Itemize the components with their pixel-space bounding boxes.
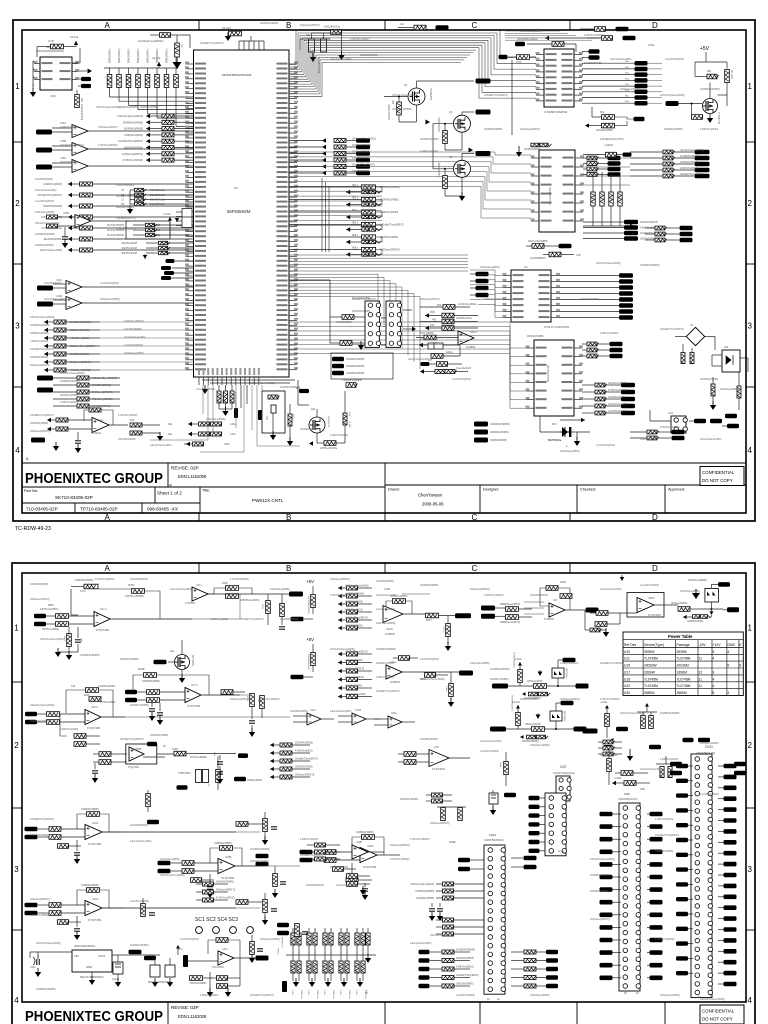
resistor R38 xyxy=(437,362,449,367)
resistor R16 xyxy=(343,413,347,425)
resistor RA5 xyxy=(355,933,359,945)
svg-text:163B04k(39685): 163B04k(39685) xyxy=(81,808,99,811)
resistor U15E in xyxy=(190,976,203,981)
resistor above CN8 d xyxy=(624,781,636,786)
svg-text:Designer:: Designer: xyxy=(483,488,499,492)
wire bundle to MAX232 xyxy=(289,321,420,323)
resistor right edge a xyxy=(737,386,741,398)
resistor RB3 xyxy=(323,961,327,973)
netbox clamp in xyxy=(490,727,506,732)
resistor C17 top left xyxy=(84,584,98,589)
op-amp U15B xyxy=(72,143,88,156)
wire SC left bus xyxy=(329,280,331,343)
svg-text:U17 a: U17 a xyxy=(100,608,107,611)
svg-text:1643B04K[3R685]: 1643B04K[3R685] xyxy=(640,264,660,267)
wire netbox col xyxy=(470,273,476,275)
wire bundle lower right of U1 xyxy=(289,254,468,256)
svg-text:ICT4LCCT244STROM: ICT4LCCT244STROM xyxy=(544,326,569,329)
capacitor C41 xyxy=(113,962,123,974)
svg-text:473KOhm(3R63Z): 473KOhm(3R63Z) xyxy=(390,858,410,861)
netbox rows below SC xyxy=(331,353,393,379)
svg-text:18M25W(3R685): 18M25W(3R685) xyxy=(420,584,438,587)
netbox U14A in xyxy=(37,286,53,291)
op-amp U16C xyxy=(458,331,474,345)
op-amp U15C xyxy=(72,160,88,173)
svg-text:18M25W(3R685): 18M25W(3R685) xyxy=(456,984,474,986)
ground U1 bottom left pin xyxy=(202,385,208,394)
netbox CN9R14 xyxy=(724,916,737,921)
resistor U17 a Rin2 xyxy=(56,622,69,627)
netbox column c xyxy=(476,286,489,291)
netbox clamp U11 xyxy=(718,582,730,587)
resistor CN10C2 xyxy=(524,967,536,971)
netbox CN8L8 xyxy=(600,913,613,918)
op-amp U14B xyxy=(66,297,82,310)
op-amp U12A xyxy=(92,418,109,433)
wire U8 left fan xyxy=(420,322,526,348)
svg-text:1: 1 xyxy=(748,624,753,633)
svg-text:4: 4 xyxy=(713,677,715,681)
resistor CN10B2 xyxy=(419,967,430,971)
netbox U15E out xyxy=(256,956,269,961)
wire R56 xyxy=(346,254,362,256)
svg-text:TL0745M: TL0745M xyxy=(644,657,658,661)
netbox clamp top xyxy=(561,701,574,706)
svg-text:473KOhm(3R63Z): 473KOhm(3R63Z) xyxy=(260,698,280,701)
resistor CN10M1 xyxy=(443,925,455,929)
svg-text:4.99KOhm[0603]: 4.99KOhm[0603] xyxy=(60,728,78,731)
connector CN3 xyxy=(671,416,687,433)
netbox CN9L3 xyxy=(676,808,688,812)
arrow RD rows xyxy=(188,422,192,426)
svg-text:473KOhm(3R63Z): 473KOhm(3R63Z) xyxy=(92,398,113,401)
svg-text:12k/ohmSame(3R6): 12k/ohmSame(3R6) xyxy=(408,358,430,361)
svg-text:HC?a: HC?a xyxy=(292,414,294,420)
svg-text:C10: C10 xyxy=(156,224,161,227)
svg-text:1643B04K[3R685]: 1643B04K[3R685] xyxy=(36,988,56,991)
netbox U5 out4 xyxy=(635,78,648,83)
resistor U18B below xyxy=(191,878,203,883)
svg-text:+5V: +5V xyxy=(700,46,710,52)
capacitor CA1 xyxy=(297,933,301,945)
svg-text:B: B xyxy=(286,513,291,522)
netbox right mid xyxy=(616,727,628,732)
svg-text:1M(Same[2R5KT]): 1M(Same[2R5KT]) xyxy=(92,391,113,394)
resistor RR5 xyxy=(322,164,326,168)
svg-text:U17 c: U17 c xyxy=(196,584,203,587)
svg-text:182R04K(3R685): 182R04K(3R685) xyxy=(664,128,683,131)
svg-text:KTBHC35M: KTBHC35M xyxy=(178,773,190,775)
wire X2 xyxy=(675,336,686,338)
resistor R5A under U5 xyxy=(602,115,615,120)
netbox CN8R13 xyxy=(650,976,663,981)
resistor pair below U11 out xyxy=(683,615,687,619)
wire U17A out xyxy=(110,618,192,620)
svg-text:U18B: U18B xyxy=(225,856,232,859)
svg-text:10K0ohm(Same[0603]): 10K0ohm(Same[0603]) xyxy=(30,704,55,707)
row R42 xyxy=(442,319,454,324)
resistor U8D in xyxy=(99,752,111,757)
svg-text:18M25W(3R685): 18M25W(3R685) xyxy=(484,128,502,131)
resistor RC4 xyxy=(77,397,89,401)
svg-text:10K0ohm(Same[0603]): 10K0ohm(Same[0603]) xyxy=(590,858,615,861)
netbox CN9L13 xyxy=(676,956,688,960)
svg-text:16A25W(3R485): 16A25W(3R485) xyxy=(118,438,136,441)
wire U15E out xyxy=(234,957,256,959)
resistor U19 in xyxy=(404,752,416,757)
svg-text:1M(Same[2R5KT]): 1M(Same[2R5KT]) xyxy=(122,153,143,156)
svg-text:Package: Package xyxy=(677,643,690,647)
svg-text:12k/ohmSame(3R6): 12k/ohmSame(3R6) xyxy=(124,336,146,339)
resistor CN10M0 xyxy=(443,918,455,922)
svg-text:1624B04K(3R685): 1624B04K(3R685) xyxy=(490,423,510,426)
svg-text:16A25W(3R485): 16A25W(3R485) xyxy=(530,594,548,597)
netbox U12A xyxy=(31,438,45,443)
resistor RA1 xyxy=(291,933,295,945)
testpoint SC2 xyxy=(213,927,220,934)
resistor RD1 xyxy=(199,422,211,426)
svg-text:18M25W(3R685): 18M25W(3R685) xyxy=(116,206,134,209)
svg-text:C1T9: C1T9 xyxy=(442,626,444,632)
netbox right of cluster xyxy=(698,738,710,743)
arrow R55 xyxy=(346,240,350,245)
svg-text:100uBarT5nm[3R63T]: 100uBarT5nm[3R63T] xyxy=(380,224,404,227)
vertical caps right of U10A xyxy=(141,904,146,917)
ground cluster2 xyxy=(143,255,147,259)
svg-text:U10: U10 xyxy=(624,650,630,654)
netbox CN9L5 xyxy=(676,838,688,842)
resistor CN10B0 xyxy=(419,950,430,954)
wire SC2 xyxy=(403,309,412,311)
diode clamp BAT54 xyxy=(550,711,562,721)
svg-text:182R04K(3R685): 182R04K(3R685) xyxy=(456,958,474,960)
wire RP8 xyxy=(175,68,177,75)
capacitor CA4 xyxy=(345,933,349,945)
resistor C11 vert xyxy=(216,770,221,783)
resistor RR1 xyxy=(322,138,326,142)
svg-text:4: 4 xyxy=(748,996,753,1005)
wire U11 out xyxy=(654,604,678,606)
svg-text:1643B04K[3R685]: 1643B04K[3R685] xyxy=(352,145,371,147)
svg-text:+5V: +5V xyxy=(306,579,314,584)
resistor RB5 xyxy=(355,961,359,973)
resistor R5B under U5 xyxy=(602,123,615,128)
resistor U18r0 xyxy=(203,882,215,886)
resistor U17C fb1 xyxy=(226,586,239,591)
U15E below xyxy=(217,976,229,981)
resistor S2S2 xyxy=(338,660,342,664)
resistor S2T2 xyxy=(270,751,274,755)
netbox CN8L3 xyxy=(600,850,613,855)
resistor U11 in2 xyxy=(595,622,607,627)
resistor U15E fb xyxy=(216,938,228,943)
CN10 left caps xyxy=(429,909,435,911)
svg-text:R4a: R4a xyxy=(168,434,173,436)
svg-text:4.99KOhm[0603]: 4.99KOhm[0603] xyxy=(380,211,398,214)
resistor U18A fb xyxy=(362,835,375,840)
netbox CN9R16 xyxy=(724,938,737,943)
svg-text:12k/ohmSame(3R6): 12k/ohmSame(3R6) xyxy=(610,58,632,61)
svg-text:3585W: 3585W xyxy=(644,691,655,695)
netbox CN8L0 xyxy=(600,812,613,817)
wire clamp U11 xyxy=(711,602,713,609)
column tick marks xyxy=(198,20,200,30)
op-amp U20A xyxy=(386,665,402,679)
svg-text:16A25W(3R485): 16A25W(3R485) xyxy=(130,824,148,827)
resistor S2C1 xyxy=(506,607,519,612)
svg-text:11: 11 xyxy=(699,684,703,688)
resistor RR6 xyxy=(322,171,326,175)
opto U22 xyxy=(722,350,740,372)
netbox U7l2 xyxy=(624,225,638,230)
svg-text:Q1: Q1 xyxy=(404,83,408,87)
svg-text:TL0745M: TL0745M xyxy=(677,677,691,681)
resistor S2S5 xyxy=(338,686,342,690)
diode clamp BAT54 xyxy=(552,668,564,678)
netbox CN9R6 xyxy=(724,829,737,834)
border frame xyxy=(13,20,755,521)
svg-text:2.2u/25Vdc[0603]: 2.2u/25Vdc[0603] xyxy=(665,58,684,61)
row R5B xyxy=(425,313,429,317)
diode cluster D15 xyxy=(196,770,202,783)
svg-text:C40a: C40a xyxy=(30,967,36,969)
power table xyxy=(623,632,743,696)
svg-text:Q2: Q2 xyxy=(449,110,453,114)
wire long interconnect s2 a xyxy=(110,618,240,620)
op-amp U10B right xyxy=(352,845,368,859)
svg-text:Sheet 1 of 2: Sheet 1 of 2 xyxy=(157,491,182,496)
ground RV cluster xyxy=(219,408,232,410)
netbox CN8R11 xyxy=(650,950,663,955)
op-amp U8HC xyxy=(637,598,654,613)
wire Q2 xyxy=(433,123,454,125)
top right resistor row a xyxy=(414,25,426,30)
resistor R52A xyxy=(362,197,376,201)
wires U7 to lower rows xyxy=(583,157,630,159)
svg-text:TL0745M: TL0745M xyxy=(677,684,691,688)
svg-text:1643B04K[3R685]: 1643B04K[3R685] xyxy=(60,380,80,383)
resistor clamp series xyxy=(532,727,545,732)
capacitor C40 xyxy=(37,959,39,965)
svg-text:R81: R81 xyxy=(707,70,712,73)
svg-text:100uBarT5nm[3R63T]: 100uBarT5nm[3R63T] xyxy=(30,348,54,351)
svg-text:4: 4 xyxy=(713,684,715,688)
svg-text:4.99KOhm[0603]: 4.99KOhm[0603] xyxy=(700,128,718,131)
svg-text:12k/ohmSame(3R6): 12k/ohmSame(3R6) xyxy=(410,942,432,945)
svg-text:16M5emDM5e: 16M5emDM5e xyxy=(247,780,263,782)
svg-text:2.2u/25Vdc[0603]: 2.2u/25Vdc[0603] xyxy=(640,584,659,587)
svg-text:4.99KOhm[0603]: 4.99KOhm[0603] xyxy=(60,401,78,404)
svg-text:U10B: U10B xyxy=(356,841,362,844)
svg-text:44BK5Sme(3R63): 44BK5Sme(3R63) xyxy=(240,599,260,602)
svg-text:DO NOT COPY: DO NOT COPY xyxy=(702,1017,733,1022)
resistor R53 row xyxy=(443,305,455,310)
svg-text:U19: U19 xyxy=(434,745,439,749)
netbox CN8R7 xyxy=(650,900,663,905)
resistor U12 b Rin2 xyxy=(47,720,60,725)
svg-text:18M25W(3R685): 18M25W(3R685) xyxy=(30,356,48,359)
svg-text:D30: D30 xyxy=(552,423,557,426)
svg-text:D: D xyxy=(652,21,658,30)
svg-text:A: A xyxy=(105,564,111,573)
svg-text:1M(Same[2R5KT]): 1M(Same[2R5KT]) xyxy=(560,698,580,701)
svg-text:CN8: CN8 xyxy=(624,792,630,796)
U1 bottom pins xyxy=(198,377,200,385)
svg-text:3: 3 xyxy=(713,670,715,674)
svg-text:100uBarT5nm[3R63T]: 100uBarT5nm[3R63T] xyxy=(660,328,684,331)
cluster above CN8 xyxy=(607,759,612,772)
wire U14A out xyxy=(82,286,194,288)
svg-text:C404/F5M(1104S): C404/F5M(1104S) xyxy=(618,798,638,801)
resistor S2R2 xyxy=(338,594,342,598)
wire U17B out xyxy=(201,694,240,696)
svg-text:2.2u/25Vdc[0603]: 2.2u/25Vdc[0603] xyxy=(700,793,719,796)
wire U16A out xyxy=(102,831,125,833)
capacitor U10A gnd xyxy=(74,929,80,931)
resistor CN10L0 xyxy=(443,882,455,886)
svg-text:100uBarT5nm[3R63T]: 100uBarT5nm[3R63T] xyxy=(118,140,143,143)
svg-text:CONFIDENTIAL: CONFIDENTIAL xyxy=(702,1009,735,1014)
capacitor U15D xyxy=(62,237,68,239)
resistor U18r1 xyxy=(203,890,215,894)
resistor clamp pullup xyxy=(518,670,523,683)
svg-text:1643B04K[3R685]: 1643B04K[3R685] xyxy=(490,668,510,671)
svg-text:5R6K(39R5C): 5R6K(39R5C) xyxy=(148,48,150,63)
wire bundle bottom left to U1 xyxy=(100,321,194,323)
netbox E3 xyxy=(655,238,667,242)
svg-text:18M25W(3R685): 18M25W(3R685) xyxy=(60,161,78,164)
svg-text:100k(Same[0805]): 100k(Same[0805]) xyxy=(270,588,290,591)
svg-text:1624B04K3R685: 1624B04K3R685 xyxy=(346,358,365,361)
svg-text:CN3: CN3 xyxy=(668,412,673,415)
wire fan top right xyxy=(289,31,500,65)
netbox rail a xyxy=(291,617,304,622)
capacitor CB5 xyxy=(361,961,365,973)
svg-text:100uBarT5nm[3R63T]: 100uBarT5nm[3R63T] xyxy=(352,163,375,166)
capacitor U17B b xyxy=(157,713,163,715)
svg-text:C45a: C45a xyxy=(230,424,236,426)
svg-text:18M25W(3R685): 18M25W(3R685) xyxy=(30,422,48,425)
transistor D4a xyxy=(175,655,190,670)
wire R52 xyxy=(346,204,362,206)
svg-text:56F8356SM: 56F8356SM xyxy=(227,209,251,214)
svg-text:1M(Same[2R5KT]): 1M(Same[2R5KT]) xyxy=(30,364,50,367)
netbox CN9R12 xyxy=(724,895,737,900)
wire U19 out xyxy=(449,757,470,759)
op-amp U12 b xyxy=(85,710,101,725)
wires U1 top pins xyxy=(238,41,240,50)
connector CN9 xyxy=(691,754,713,998)
svg-text:V7B: V7B xyxy=(365,990,367,995)
svg-text:R5B7: R5B7 xyxy=(48,605,54,607)
svg-text:18k/25W4C(R5a2): 18k/25W4C(R5a2) xyxy=(517,38,538,41)
svg-text:12k/ohmSame(3R6): 12k/ohmSame(3R6) xyxy=(35,189,57,192)
top right resistor row c xyxy=(602,36,614,41)
svg-text:MC56F8356VMFG6M: MC56F8356VMFG6M xyxy=(222,73,252,77)
resistor RP6 xyxy=(155,75,160,88)
resistor RL6 xyxy=(146,145,150,149)
svg-text:4.99KOhm[0603]: 4.99KOhm[0603] xyxy=(560,662,578,665)
netbox PH5 xyxy=(529,840,540,844)
netbox U18B in1 xyxy=(158,861,171,866)
wire U10A out xyxy=(102,907,125,909)
svg-text:16A25W(3R485): 16A25W(3R485) xyxy=(430,934,448,937)
resistor RP2 xyxy=(117,75,122,88)
netbox in A xyxy=(36,130,52,135)
netbox TX xyxy=(37,376,53,381)
netbox D15 xyxy=(177,785,188,790)
netbox CN9R0 xyxy=(724,764,737,769)
row tick marks xyxy=(13,141,22,143)
svg-text:U30: U30 xyxy=(50,94,56,98)
resistor S2R6 xyxy=(338,626,342,630)
svg-text:4.99KOhm[0603]: 4.99KOhm[0603] xyxy=(352,158,370,160)
svg-text:10K0ohm(Same[0603]): 10K0ohm(Same[0603]) xyxy=(35,222,60,225)
resistor SC in b xyxy=(340,341,352,346)
U10B below xyxy=(347,874,359,879)
resistor RX1 xyxy=(681,353,685,365)
wire bundle to U7 xyxy=(382,152,531,155)
svg-text:182R04K(3R685): 182R04K(3R685) xyxy=(590,890,609,893)
svg-text:U12A: U12A xyxy=(97,419,103,422)
svg-text:U8HB: U8HB xyxy=(135,748,142,751)
netbox CN9L10 xyxy=(676,912,688,916)
svg-text:R5B: R5B xyxy=(430,312,435,314)
resistor U8b5 xyxy=(595,411,607,415)
netbox U30 b xyxy=(81,84,91,88)
netbox U17 a in+ xyxy=(34,614,46,619)
vertical pair right of U16A xyxy=(146,794,151,807)
capacitor CB1 xyxy=(297,961,301,973)
arrow R56 xyxy=(346,252,350,257)
svg-text:182R04K(3R685): 182R04K(3R685) xyxy=(70,329,90,332)
svg-text:KTJ|0745M: KTJ|0745M xyxy=(96,628,109,632)
resistor RR4 xyxy=(322,158,326,162)
netbox CN8R0 xyxy=(650,812,663,817)
svg-text:U20a: U20a xyxy=(391,712,397,715)
netbox U7l1 xyxy=(624,220,638,225)
polarized cap q8 xyxy=(489,793,498,804)
netbox CN8R4 xyxy=(650,862,663,867)
svg-text:11: 11 xyxy=(699,657,703,661)
svg-text:18M25W(3R685): 18M25W(3R685) xyxy=(260,22,278,25)
wire RP1 xyxy=(109,68,111,75)
block C23 cluster xyxy=(262,391,285,433)
netbox osc d xyxy=(161,276,171,280)
svg-text:12k/ohmSame(3R6): 12k/ohmSame(3R6) xyxy=(376,594,398,597)
netbox CN9L7 xyxy=(676,867,688,871)
svg-text:+10k25w: +10k25w xyxy=(604,145,614,147)
op-amp U1 main DSP 56F8356 xyxy=(185,50,298,377)
wire U30 left bus xyxy=(32,61,34,89)
resistor S2C2 xyxy=(506,615,519,620)
svg-text:163B04k(39685): 163B04k(39685) xyxy=(214,842,232,845)
svg-text:REVISE: 02P: REVISE: 02P xyxy=(171,1005,199,1010)
wire drop right xyxy=(297,380,299,405)
netbox CN8L6 xyxy=(600,887,613,892)
svg-text:182R04K(3R685): 182R04K(3R685) xyxy=(680,162,698,164)
op-amp U17C xyxy=(192,587,208,601)
svg-text:2.2u/25Vdc[0603]: 2.2u/25Vdc[0603] xyxy=(420,658,439,661)
resistor RG3 xyxy=(609,192,613,206)
svg-text:4.99KOhm[0603]: 4.99KOhm[0603] xyxy=(680,168,698,170)
arrow R53 xyxy=(346,215,350,220)
svg-text:R11a: R11a xyxy=(261,604,263,610)
wire U5 left bus xyxy=(511,60,513,135)
svg-text:182R04K(3R685): 182R04K(3R685) xyxy=(250,860,269,863)
svg-text:KTJ|0745M: KTJ|0745M xyxy=(363,865,376,869)
resistor above pack xyxy=(606,152,618,157)
